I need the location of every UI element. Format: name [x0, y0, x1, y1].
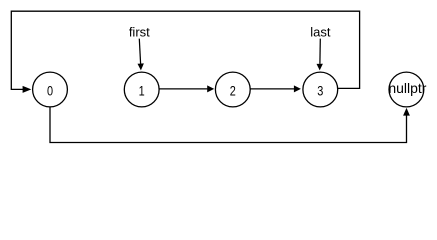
svg-text:1: 1 [139, 83, 145, 99]
svg-text:3: 3 [317, 83, 323, 99]
svg-text:last: last [310, 25, 331, 40]
svg-text:0: 0 [47, 83, 53, 99]
svg-text:first: first [129, 25, 150, 40]
svg-text:nullptr: nullptr [388, 80, 426, 96]
svg-text:2: 2 [230, 83, 236, 99]
